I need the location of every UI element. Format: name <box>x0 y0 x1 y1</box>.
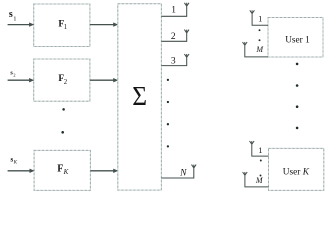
svg-text:F: F <box>57 163 63 174</box>
svg-text:K: K <box>63 168 69 176</box>
ellipsis tx antennas <box>167 79 169 81</box>
tx antenna 1 <box>161 3 189 16</box>
svg-text:2: 2 <box>64 79 68 86</box>
ellipsis between users <box>296 63 299 66</box>
user K box <box>269 148 324 190</box>
precoder block F2 <box>34 59 90 101</box>
ellipsis userK antennas <box>260 160 262 162</box>
tx antenna N <box>161 165 196 178</box>
ellipsis between F2 and FK <box>62 108 65 111</box>
svg-text:K: K <box>13 160 18 165</box>
svg-text:1: 1 <box>171 5 176 15</box>
tx antenna 3 <box>161 54 189 66</box>
arrow sK to FK <box>8 170 30 172</box>
arrow s2 to F2 <box>8 79 30 81</box>
svg-text:M: M <box>255 45 264 54</box>
arrow FK to combiner <box>90 170 113 172</box>
arrow F2 to combiner <box>90 79 114 81</box>
user1 rx antenna M <box>243 42 269 57</box>
svg-text:1: 1 <box>64 24 67 31</box>
precoder block FK <box>34 150 90 190</box>
tx antenna 2 <box>161 30 189 42</box>
svg-text:M: M <box>255 176 264 185</box>
svg-text:N: N <box>179 168 187 178</box>
svg-text:1: 1 <box>13 15 16 22</box>
userK rx antenna M <box>243 172 269 187</box>
userK rx antenna 1 <box>250 141 269 156</box>
combiner sigma box <box>118 4 162 190</box>
svg-text:Σ: Σ <box>132 80 147 111</box>
ellipsis user1 antennas <box>259 29 261 31</box>
svg-text:1: 1 <box>258 14 262 24</box>
arrow F1 to combiner <box>90 24 114 26</box>
svg-text:User 1: User 1 <box>285 35 310 45</box>
arrow s1 to F1 <box>8 24 30 26</box>
svg-text:User K: User K <box>283 167 310 177</box>
user1 rx antenna 1 <box>250 10 268 25</box>
svg-text:1: 1 <box>258 145 262 155</box>
user 1 box <box>268 18 323 58</box>
svg-text:2: 2 <box>171 32 176 42</box>
svg-text:3: 3 <box>171 56 176 66</box>
precoder block F1 <box>34 4 90 47</box>
